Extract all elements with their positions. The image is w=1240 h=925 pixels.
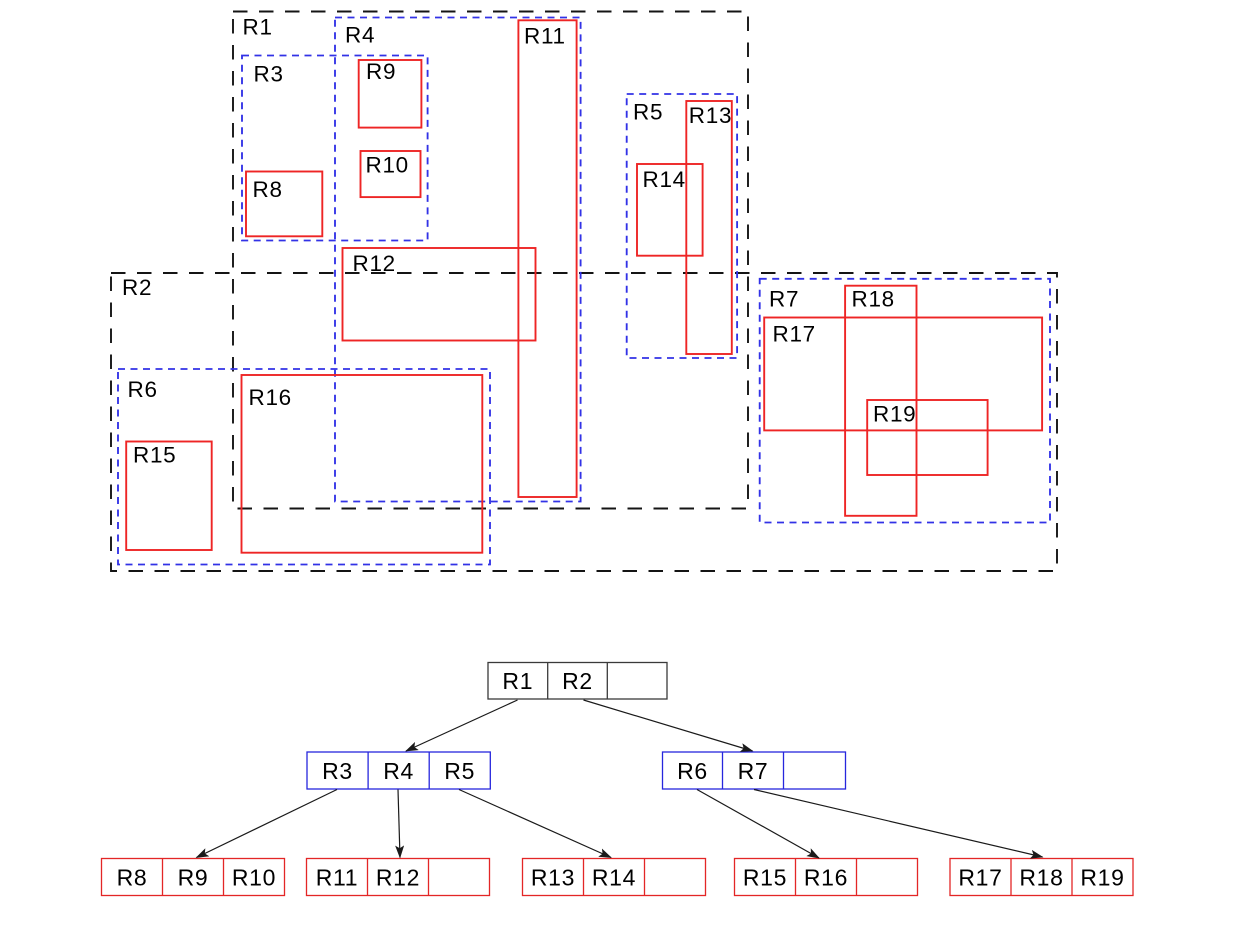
rectangle R17 (red) (764, 318, 1042, 431)
svg-text:R9: R9 (178, 865, 209, 891)
arrow R7 -> leaf R17R18R19 (754, 790, 1043, 858)
svg-text:R14: R14 (592, 865, 636, 891)
svg-text:R13: R13 (689, 103, 732, 128)
svg-text:R12: R12 (376, 865, 420, 891)
tree root node [R1|R2| ] (488, 663, 667, 700)
rectangle R14 (red) (637, 164, 703, 256)
rectangle R15 (red) (126, 442, 212, 551)
svg-text:R4: R4 (383, 758, 414, 784)
svg-text:R12: R12 (353, 251, 396, 276)
svg-text:R18: R18 (852, 287, 895, 312)
rectangle R2 (black dashed) (111, 273, 1057, 571)
svg-text:R2: R2 (562, 668, 593, 694)
rectangle R11 (red) (518, 20, 576, 497)
tree node [R6|R7| ] (663, 752, 846, 789)
svg-text:R8: R8 (253, 177, 283, 202)
svg-text:R19: R19 (1080, 865, 1124, 891)
rectangle R13 (red) (686, 101, 732, 354)
rectangle R12 (red) (343, 248, 536, 341)
arrow root R2 -> node R6R7 (584, 700, 753, 751)
svg-text:R16: R16 (249, 385, 292, 410)
svg-text:R15: R15 (743, 865, 787, 891)
rectangle R4 (blue dashed) (335, 18, 581, 502)
rectangle R19 (red) (867, 400, 987, 475)
svg-text:R6: R6 (128, 377, 158, 402)
rectangle R18 (red) (845, 286, 916, 516)
tree leaf [R8|R9|R10] (102, 859, 285, 896)
rectangle R6 (blue dashed) (118, 369, 490, 565)
arrow R4 -> leaf R11R12 (398, 790, 400, 858)
tree leaf [R15|R16| ] (735, 859, 918, 896)
rectangle R8 (red) (246, 172, 322, 237)
tree leaf [R13|R14| ] (523, 859, 706, 896)
svg-text:R4: R4 (345, 22, 375, 47)
svg-text:R15: R15 (133, 443, 176, 468)
arrow R3 -> leaf R8R9R10 (197, 790, 338, 858)
arrow R5 -> leaf R13R14 (459, 790, 611, 858)
svg-text:R11: R11 (316, 865, 359, 891)
svg-text:R3: R3 (254, 61, 284, 86)
arrow root R1 -> node R3R4R5 (406, 700, 518, 751)
rectangle R1 (black dashed) (233, 12, 748, 509)
svg-text:R8: R8 (117, 865, 148, 891)
svg-text:R19: R19 (873, 402, 916, 427)
svg-text:R9: R9 (366, 59, 396, 84)
svg-text:R6: R6 (677, 758, 708, 784)
rectangle R9 (red) (359, 59, 422, 127)
tree leaf [R11|R12| ] (307, 859, 490, 896)
rectangle R7 (blue dashed) (760, 279, 1050, 523)
rectangle R5 (blue dashed) (627, 94, 737, 358)
rectangle R16 (red) (242, 375, 483, 553)
svg-text:R7: R7 (769, 287, 799, 312)
svg-text:R1: R1 (243, 14, 273, 39)
svg-text:R3: R3 (322, 758, 353, 784)
arrow R6 -> leaf R15R16 (697, 790, 819, 859)
rectangle R3 (blue dashed) (242, 56, 428, 241)
svg-text:R5: R5 (444, 758, 475, 784)
svg-text:R1: R1 (502, 668, 533, 694)
tree node [R3|R4|R5] (307, 752, 490, 789)
svg-text:R5: R5 (633, 100, 663, 125)
tree leaf [R17|R18|R19] (950, 859, 1133, 896)
svg-text:R13: R13 (531, 865, 575, 891)
svg-text:R16: R16 (804, 865, 848, 891)
svg-text:R10: R10 (232, 865, 276, 891)
svg-text:R18: R18 (1019, 865, 1063, 891)
svg-text:R17: R17 (958, 865, 1002, 891)
svg-text:R17: R17 (773, 321, 816, 346)
svg-text:R2: R2 (122, 275, 152, 300)
svg-text:R7: R7 (738, 758, 769, 784)
svg-text:R10: R10 (366, 153, 409, 178)
rectangle R10 (red) (361, 151, 421, 197)
svg-text:R14: R14 (643, 167, 686, 192)
svg-text:R11: R11 (524, 23, 566, 48)
